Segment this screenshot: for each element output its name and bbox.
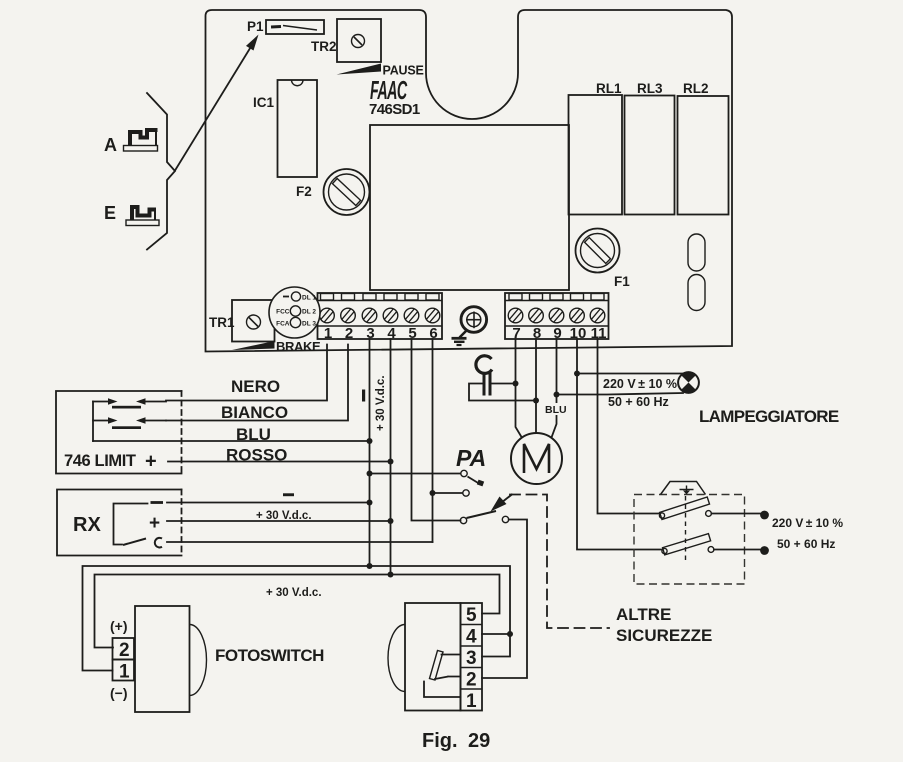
- terminal caps 1-6: [321, 294, 440, 301]
- RX minus terminal: [151, 501, 164, 504]
- svg-text:2: 2: [119, 640, 130, 661]
- 746 LIMIT box: [56, 391, 182, 474]
- svg-text:1: 1: [466, 691, 477, 712]
- wire 7 to motor: [516, 339, 524, 440]
- svg-text:29: 29: [468, 730, 490, 752]
- svg-text:1: 1: [119, 662, 130, 683]
- svg-text:A: A: [104, 135, 117, 155]
- svg-text:ALTRE: ALTRE: [616, 605, 671, 624]
- svg-text:BRAKE: BRAKE: [276, 339, 321, 354]
- svg-text:F1: F1: [614, 274, 630, 289]
- RX box: [57, 490, 182, 556]
- svg-text:DL 3: DL 3: [302, 321, 316, 328]
- FOTOSWITCH lens: [190, 625, 207, 696]
- tick mark: [362, 390, 365, 402]
- svg-text:220 V ± 10 %: 220 V ± 10 %: [603, 377, 677, 391]
- wire 3 vertical: [369, 339, 371, 566]
- earth ground symbol: [452, 307, 487, 345]
- arrow from brace to P1: [175, 45, 252, 171]
- wire 8 to motor: [535, 339, 537, 434]
- node ROSSO-w4: [388, 459, 394, 465]
- node RXminus-w3: [367, 500, 373, 506]
- terminal screws 1-6: [320, 308, 440, 323]
- svg-text:(+): (+): [110, 618, 128, 634]
- wire 10 vertical: [577, 339, 661, 550]
- svg-text:50 + 60 Hz: 50 + 60 Hz: [608, 395, 669, 409]
- wire to PA switch: [370, 473, 461, 475]
- node PA-w3: [367, 471, 373, 477]
- RX C contact blade: [123, 539, 146, 546]
- screw hatching 7-11: [509, 309, 603, 322]
- fuse F1: [576, 229, 620, 273]
- svg-text:FOTOSWITCH: FOTOSWITCH: [215, 646, 324, 665]
- svg-text:BIANCO: BIANCO: [221, 403, 288, 422]
- dashed link between poles: [685, 496, 687, 563]
- photocell RX body: [405, 603, 461, 711]
- svg-text:5: 5: [408, 325, 416, 342]
- limit switch NC contact BIANCO: [93, 417, 166, 429]
- svg-text:6: 6: [429, 325, 437, 342]
- node cap-w7: [513, 381, 519, 387]
- photocell lens: [388, 625, 405, 692]
- rail A common: [83, 566, 511, 671]
- node cap-w8: [533, 398, 539, 404]
- svg-text:TR1: TR1: [209, 315, 235, 330]
- photocell terminal strip: [461, 603, 483, 711]
- rail B +30V: [95, 575, 500, 648]
- wire 5 vertical: [412, 339, 461, 521]
- lamp lampeggiatore: [678, 372, 699, 393]
- node PAbranch-w6: [430, 490, 436, 496]
- svg-text:IC1: IC1: [253, 95, 275, 110]
- svg-text:50 + 60 Hz: 50 + 60 Hz: [777, 537, 835, 551]
- wire contact to photocell 2: [482, 520, 527, 679]
- svg-text:RX: RX: [73, 514, 101, 536]
- terminal screws 7-11: [508, 308, 605, 323]
- mains switch pole 1: [659, 497, 711, 520]
- mains terminal dot 50Hz: [760, 546, 769, 555]
- pin numbers 1-6: [324, 325, 438, 342]
- svg-text:P1: P1: [247, 19, 264, 34]
- central module rectangle: [370, 125, 569, 290]
- cam icon A: [124, 130, 158, 151]
- svg-text:(−): (−): [110, 685, 128, 701]
- wire pole2 to terminal: [714, 549, 761, 551]
- svg-text:3: 3: [466, 648, 477, 669]
- svg-text:2: 2: [345, 325, 353, 342]
- cam icon E: [126, 207, 159, 226]
- BRAKE pointer wedge: [232, 341, 275, 350]
- fuse F2: [324, 169, 370, 215]
- mains switch pole 2: [662, 534, 714, 555]
- terminal block 1-6: [318, 293, 443, 339]
- svg-text:BLU: BLU: [545, 404, 567, 416]
- arrow to safety contact: [491, 494, 513, 512]
- svg-text:LAMPEGGIATORE: LAMPEGGIATORE: [699, 407, 839, 426]
- photocell internal relay blade: [430, 651, 461, 681]
- svg-text:TR2: TR2: [311, 39, 337, 54]
- limit switch common link: [92, 402, 94, 442]
- svg-text:11: 11: [591, 325, 607, 342]
- power supply box: [634, 495, 745, 585]
- wire 4 vertical: [390, 339, 392, 575]
- wire RX C to wire6: [167, 541, 433, 543]
- svg-text:+: +: [149, 513, 160, 534]
- PAUSE pointer wedge: [337, 64, 382, 75]
- node RXplus-w4: [388, 518, 394, 524]
- FOTOSWITCH terminal 1: [113, 660, 135, 681]
- svg-text:Fig.: Fig.: [422, 730, 458, 752]
- svg-text:FCC: FCC: [276, 309, 290, 316]
- svg-text:10: 10: [570, 325, 587, 342]
- svg-text:5: 5: [466, 605, 477, 626]
- motor M: [511, 433, 562, 484]
- capacitor plates: [483, 373, 486, 396]
- wire 220V to lamp: [577, 373, 683, 375]
- svg-text:RL2: RL2: [683, 81, 709, 96]
- wire w6 branch to PA: [433, 492, 463, 494]
- svg-text:RL3: RL3: [637, 81, 663, 96]
- svg-text:3: 3: [366, 325, 374, 342]
- svg-text:746 LIMIT: 746 LIMIT: [64, 452, 136, 470]
- svg-text:4: 4: [387, 325, 396, 342]
- terminal block 7-11: [505, 293, 609, 339]
- svg-text:PAUSE: PAUSE: [383, 64, 424, 78]
- plug symbol: [661, 482, 706, 495]
- RX internal link: [114, 504, 148, 545]
- FOTOSWITCH terminal 2: [113, 638, 135, 660]
- node BLU-w3: [367, 438, 373, 444]
- capsule pad 2: [688, 275, 705, 311]
- wire pole1 to terminal: [712, 513, 762, 515]
- safety contact: [460, 511, 508, 524]
- node 220V-w10: [574, 371, 580, 377]
- wire 9 to motor: [552, 339, 557, 438]
- PA pushbutton: [461, 470, 484, 496]
- screw hatching 1-6: [321, 309, 439, 322]
- svg-text:DL 1: DL 1: [302, 295, 316, 302]
- svg-text:PA: PA: [456, 445, 486, 471]
- svg-text:220 V ± 10 %: 220 V ± 10 %: [772, 516, 843, 530]
- capsule pad 1: [688, 234, 705, 271]
- svg-text:FCA: FCA: [276, 321, 290, 328]
- pin numbers 7-11: [512, 325, 606, 342]
- svg-text:2: 2: [466, 670, 477, 691]
- svg-text:4: 4: [466, 627, 477, 648]
- minus label: [283, 493, 294, 496]
- svg-text:1: 1: [324, 325, 332, 342]
- limit switch NC contact NERO: [93, 398, 166, 408]
- dashed altre sicurezze path: [510, 495, 609, 629]
- RX C terminal: [155, 538, 162, 548]
- photocell internal wire to 1: [424, 682, 461, 698]
- svg-text:NERO: NERO: [231, 377, 280, 396]
- BLU wire label: [543, 403, 570, 415]
- svg-text:SICUREZZE: SICUREZZE: [616, 626, 712, 645]
- wire 50+60Hz to lamp: [557, 393, 684, 395]
- svg-text:E: E: [104, 203, 116, 223]
- svg-text:DL 2: DL 2: [302, 309, 316, 316]
- wire RX plus: [167, 520, 391, 522]
- svg-text:+ 30 V.d.c.: + 30 V.d.c.: [375, 375, 387, 431]
- svg-text:F2: F2: [296, 184, 312, 199]
- FOTOSWITCH body: [135, 606, 190, 712]
- capacitor C curl: [476, 356, 492, 374]
- wire 6 vertical: [432, 339, 434, 542]
- wire RX minus: [167, 502, 370, 504]
- svg-text:+ 30 V.d.c.: + 30 V.d.c.: [266, 587, 322, 599]
- wire 11 vertical: [598, 339, 660, 514]
- svg-text:RL1: RL1: [596, 81, 622, 96]
- rail A branch to photocell 4: [482, 633, 510, 635]
- svg-text:9: 9: [553, 325, 561, 342]
- photocell pin numbers: [466, 605, 477, 712]
- svg-text:746SD1: 746SD1: [369, 101, 420, 118]
- capacitor leads: [469, 384, 536, 401]
- svg-text:7: 7: [512, 325, 520, 342]
- terminal caps 7-11: [509, 294, 604, 301]
- brace for A/E limit cams: [147, 93, 175, 250]
- node railA-w3: [367, 563, 373, 569]
- LED cluster DL1 DL2 DL3: [269, 287, 320, 338]
- node railA-photocell4: [507, 631, 513, 637]
- node 50Hz-w9: [554, 392, 560, 398]
- node railB-w4: [388, 572, 394, 578]
- svg-text:8: 8: [533, 325, 541, 342]
- control board outline 746SD1: [206, 10, 733, 352]
- svg-text:+: +: [145, 451, 157, 473]
- mains terminal dot 220V: [760, 511, 769, 520]
